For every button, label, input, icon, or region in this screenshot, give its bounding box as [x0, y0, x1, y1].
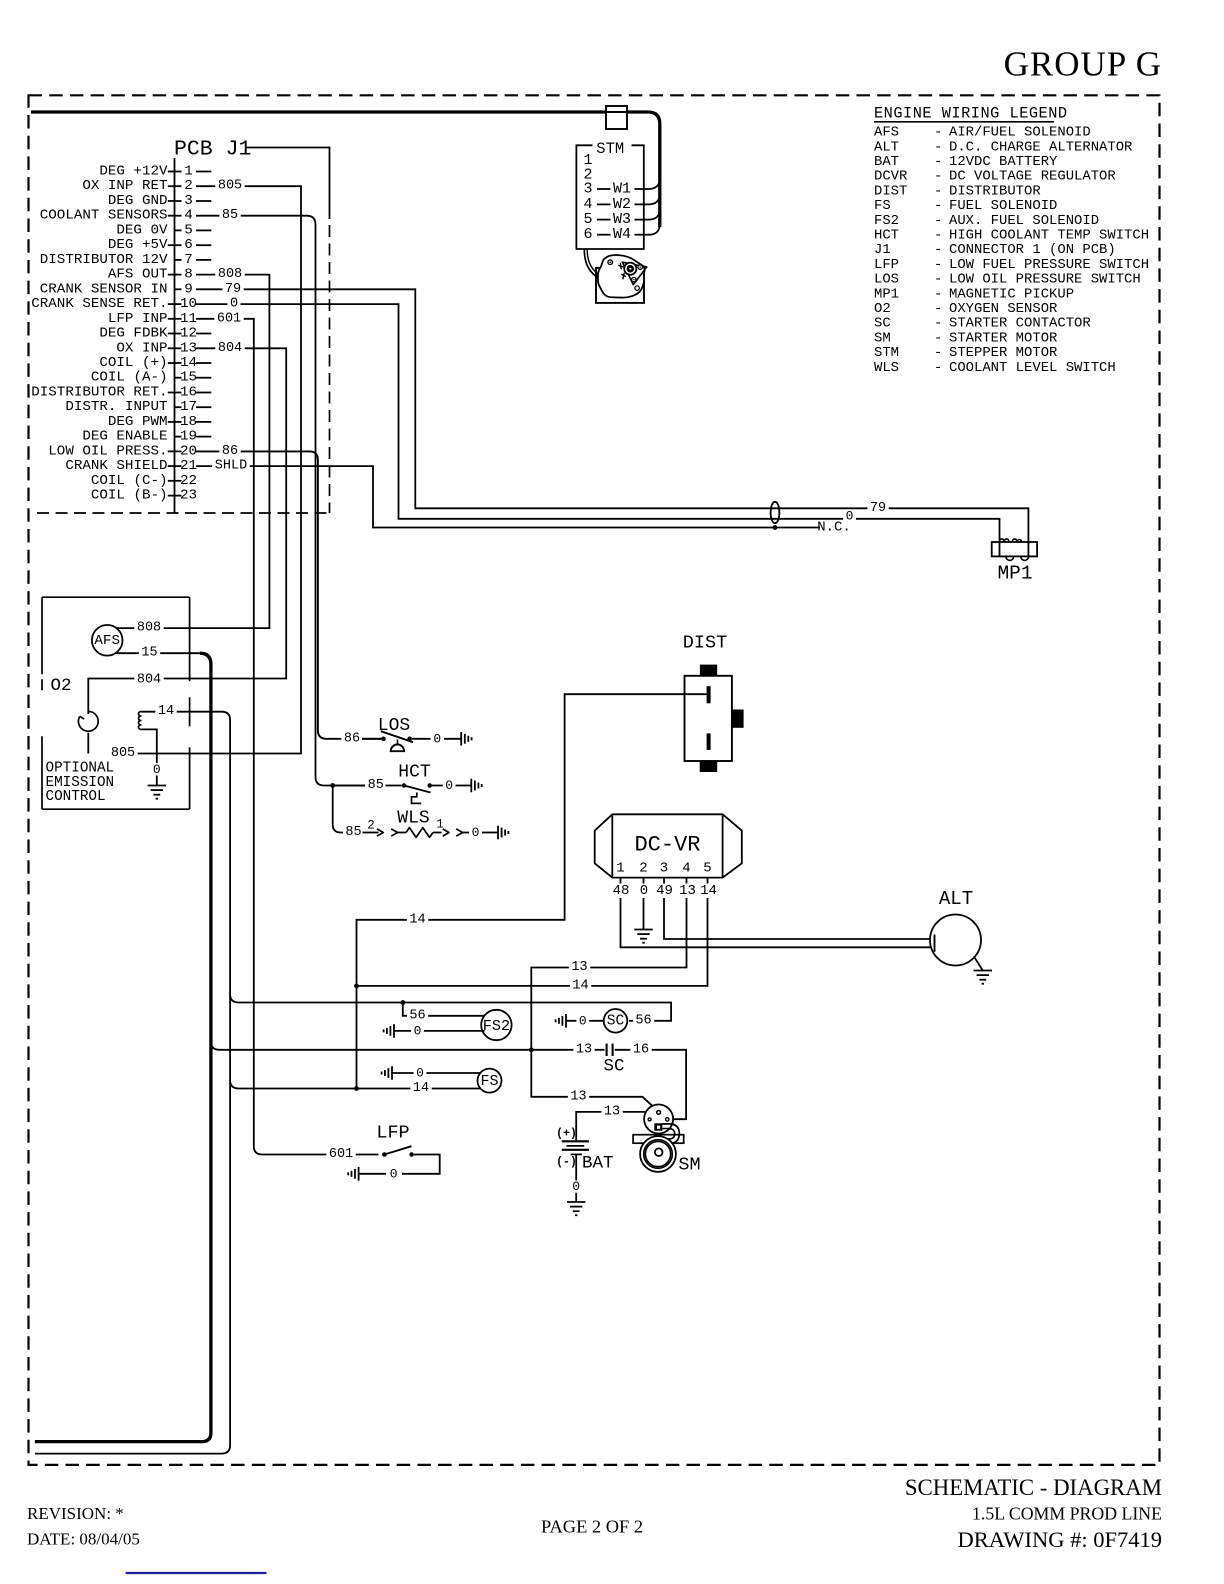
STM pin 4	[583, 196, 648, 213]
svg-text:7: 7	[184, 252, 193, 268]
svg-text:SHLD: SHLD	[215, 459, 247, 474]
pin 20 LOW OIL PRESS.	[48, 443, 197, 459]
pin 11 LFP INP	[108, 311, 197, 327]
svg-text:2: 2	[639, 861, 647, 877]
wire 15 (thick, to page 1 via left border)	[117, 652, 200, 654]
switch LFP low fuel pressure	[326, 1123, 439, 1182]
svg-text:804: 804	[218, 341, 242, 356]
pin 3 DEG GND	[108, 193, 211, 209]
svg-text:MAGNETIC PICKUP: MAGNETIC PICKUP	[949, 286, 1074, 302]
svg-text:LOS: LOS	[874, 272, 899, 288]
svg-text:LFP: LFP	[874, 257, 899, 273]
STM pin 2	[583, 166, 592, 183]
svg-text:13: 13	[576, 1042, 592, 1057]
svg-text:16: 16	[180, 384, 197, 400]
wire 13 row from page 1	[211, 1042, 605, 1050]
svg-text:AUX. FUEL SOLENOID: AUX. FUEL SOLENOID	[949, 213, 1099, 229]
svg-text:5: 5	[184, 222, 193, 238]
pin 10 CRANK SENSE RET.	[31, 296, 197, 312]
svg-text:AFS OUT: AFS OUT	[108, 267, 168, 283]
svg-text:MP1: MP1	[874, 286, 899, 302]
svg-text:SC: SC	[603, 1057, 624, 1077]
pin 18 DEG PWM	[108, 414, 211, 430]
pin 5 DEG 0V	[116, 222, 211, 238]
svg-text:86: 86	[222, 444, 238, 459]
pin 19 DEG ENABLE	[82, 429, 211, 445]
svg-text:DISTR. INPUT: DISTR. INPUT	[65, 399, 167, 415]
svg-text:WLS: WLS	[874, 360, 899, 376]
svg-text:15: 15	[180, 370, 197, 386]
label 0 FS	[414, 1066, 427, 1081]
inline connector on supply wire	[606, 106, 627, 129]
pin 17 DISTR. INPUT	[65, 399, 211, 415]
footer revision/date	[27, 1504, 140, 1549]
wire 0 crank sense return (pin10 to MP1)	[196, 304, 1000, 556]
svg-text:6: 6	[184, 237, 193, 253]
svg-text:0: 0	[416, 1066, 424, 1081]
svg-text:(+): (+)	[556, 1128, 577, 1141]
svg-text:0: 0	[390, 1166, 398, 1181]
svg-text:808: 808	[137, 621, 161, 636]
engine wiring legend	[874, 105, 1149, 376]
sheet dashed border	[29, 95, 1160, 1465]
wire 808 (pin8 to AFS)	[117, 275, 269, 628]
junction 56/FS2	[400, 1000, 405, 1005]
svg-text:DC VOLTAGE REGULATOR: DC VOLTAGE REGULATOR	[949, 169, 1116, 185]
svg-text:14: 14	[180, 355, 197, 371]
svg-text:-: -	[934, 169, 942, 185]
label 0 at N.C.	[843, 509, 856, 524]
svg-text:SM: SM	[874, 330, 891, 346]
stepper motor drawing	[584, 249, 647, 303]
wire 86 (pin20 to LOS)	[196, 451, 382, 738]
svg-text:BAT: BAT	[582, 1153, 614, 1173]
svg-text:COIL (C-): COIL (C-)	[91, 473, 168, 489]
svg-text:ALT: ALT	[939, 888, 973, 910]
svg-text:85: 85	[222, 208, 238, 223]
pin 1 DEG +12V	[99, 164, 211, 180]
svg-text:COIL (A-): COIL (A-)	[91, 370, 168, 386]
svg-text:BAT: BAT	[874, 154, 899, 170]
svg-text:FS2: FS2	[483, 1017, 510, 1035]
label 56 FS2	[407, 1008, 428, 1023]
wire 48 (DC-VR pin1 to ALT)	[621, 898, 935, 947]
svg-text:WLS: WLS	[397, 809, 429, 829]
svg-text:14: 14	[158, 704, 174, 719]
svg-text:12VDC BATTERY: 12VDC BATTERY	[949, 154, 1058, 170]
svg-text:10: 10	[180, 296, 197, 312]
text OPTIONAL EMISSION CONTROL	[46, 761, 115, 806]
svg-text:HIGH COOLANT TEMP SWITCH: HIGH COOLANT TEMP SWITCH	[949, 228, 1149, 244]
label 805 in O2 box	[108, 746, 137, 761]
battery BAT	[556, 1128, 613, 1174]
svg-text:DIST: DIST	[683, 633, 727, 654]
svg-text:-: -	[934, 125, 942, 141]
label 804	[215, 341, 244, 356]
svg-text:O2: O2	[50, 676, 71, 696]
svg-text:601: 601	[217, 311, 241, 326]
svg-text:14: 14	[413, 1081, 429, 1096]
svg-text:5: 5	[703, 861, 711, 877]
wire from J1 label to PCB boundary	[245, 148, 329, 220]
svg-text:HCT: HCT	[874, 228, 899, 244]
svg-text:J1: J1	[874, 242, 891, 258]
shield twist symbol	[771, 502, 780, 523]
STM pin 1	[583, 152, 592, 169]
svg-text:-: -	[934, 272, 942, 288]
blue underline mark	[126, 1572, 267, 1574]
pin 9 CRANK SENSOR IN	[40, 281, 193, 297]
label 13 upper SM	[568, 1089, 589, 1104]
pin 23 COIL (B-)	[91, 488, 197, 504]
distributor DIST	[683, 633, 744, 773]
svg-text:15: 15	[141, 646, 157, 661]
svg-text:14: 14	[700, 883, 717, 899]
svg-text:CRANK SENSOR IN: CRANK SENSOR IN	[40, 281, 168, 297]
pin 4 COOLANT SENSORS	[40, 208, 193, 224]
regulator DC-VR	[595, 814, 742, 899]
wire 13 net (DC-VR pin4, SC, SM)	[531, 898, 686, 1111]
svg-text:COOLANT SENSORS: COOLANT SENSORS	[40, 208, 168, 224]
svg-text:(-): (-)	[556, 1156, 577, 1169]
svg-text:CRANK SENSE RET.: CRANK SENSE RET.	[31, 296, 167, 312]
svg-text:0: 0	[572, 1179, 580, 1194]
svg-text:SM: SM	[678, 1155, 700, 1176]
svg-text:DRAWING #: 0F7419: DRAWING #: 0F7419	[958, 1527, 1162, 1552]
FS2 56 branch	[403, 1003, 485, 1016]
pin 14 COIL (+)	[99, 355, 211, 371]
svg-text:16: 16	[633, 1042, 649, 1057]
svg-text:9: 9	[184, 281, 193, 297]
label 14 FS	[410, 1081, 431, 1096]
svg-text:-: -	[934, 330, 942, 346]
svg-text:808: 808	[218, 267, 242, 282]
STM pin 3	[583, 181, 648, 198]
svg-text:AFS: AFS	[874, 125, 899, 141]
connector STM	[576, 140, 643, 249]
svg-text:CONNECTOR 1 (ON PCB): CONNECTOR 1 (ON PCB)	[949, 242, 1116, 258]
svg-text:0: 0	[433, 731, 441, 746]
svg-text:DEG GND: DEG GND	[108, 193, 168, 209]
svg-text:AIR/FUEL SOLENOID: AIR/FUEL SOLENOID	[949, 125, 1091, 141]
svg-text:6: 6	[583, 226, 592, 243]
svg-text:56: 56	[635, 1013, 651, 1028]
label 808	[215, 267, 244, 282]
label 14	[570, 978, 591, 993]
svg-text:COIL (B-): COIL (B-)	[91, 488, 168, 504]
svg-text:-: -	[934, 183, 942, 199]
svg-text:8: 8	[184, 267, 193, 283]
wire 805 (pin2 to O2 box)	[117, 186, 301, 753]
pin 21 CRANK SHIELD	[65, 458, 197, 474]
svg-text:DIST: DIST	[874, 183, 907, 199]
label 0	[227, 297, 240, 312]
svg-text:-: -	[934, 316, 942, 332]
svg-text:3: 3	[660, 861, 668, 877]
svg-text:MP1: MP1	[997, 563, 1032, 585]
svg-text:DEG FDBK: DEG FDBK	[99, 326, 168, 342]
solenoid FS2	[481, 1010, 511, 1040]
svg-text:STARTER MOTOR: STARTER MOTOR	[949, 330, 1057, 346]
svg-text:LFP INP: LFP INP	[108, 311, 168, 327]
shield junction	[773, 525, 778, 530]
label 0 at O2 ground	[150, 762, 163, 777]
svg-text:DEG +5V: DEG +5V	[108, 237, 168, 253]
svg-text:-: -	[934, 154, 942, 170]
svg-text:SC: SC	[607, 1014, 625, 1030]
svg-text:FS2: FS2	[874, 213, 899, 229]
pin 12 DEG FDBK	[99, 326, 211, 342]
svg-text:14: 14	[409, 912, 425, 927]
svg-text:48: 48	[613, 883, 630, 899]
svg-text:85: 85	[345, 825, 361, 840]
svg-text:ENGINE WIRING LEGEND: ENGINE WIRING LEGEND	[874, 105, 1068, 123]
svg-text:CONTROL: CONTROL	[46, 789, 106, 805]
wire SHLD (pin21 shield)	[196, 466, 820, 527]
pin 7 DISTRIBUTOR 12V	[40, 252, 212, 268]
svg-text:PAGE 2 OF 2: PAGE 2 OF 2	[541, 1517, 643, 1537]
wire 79 (pin9 to MP1)	[196, 289, 1028, 556]
svg-text:LOW OIL PRESSURE SWITCH: LOW OIL PRESSURE SWITCH	[949, 272, 1141, 288]
label 13 lower	[601, 1104, 622, 1119]
svg-text:DATE: 08/04/05: DATE: 08/04/05	[27, 1530, 140, 1549]
label 85	[219, 208, 240, 223]
label 805	[215, 179, 244, 194]
svg-text:0: 0	[445, 778, 453, 793]
svg-text:49: 49	[656, 883, 673, 899]
label 86	[219, 444, 240, 459]
magnetic pickup MP1	[992, 539, 1037, 585]
svg-text:FS: FS	[874, 198, 891, 214]
wire 14 to FS	[230, 1080, 480, 1088]
svg-text:DEG ENABLE: DEG ENABLE	[82, 429, 167, 445]
wire 56 net	[230, 994, 671, 1021]
heater coil	[138, 712, 141, 730]
switch LOS low oil pressure	[341, 716, 471, 751]
svg-text:13: 13	[570, 1089, 586, 1104]
O2 emission control box	[42, 597, 190, 809]
svg-text:0: 0	[579, 1013, 587, 1028]
svg-text:805: 805	[111, 746, 135, 761]
svg-text:-: -	[934, 360, 942, 376]
svg-text:13: 13	[571, 960, 587, 975]
wire 601 (pin11 to LFP)	[196, 319, 379, 1155]
svg-text:56: 56	[409, 1008, 425, 1023]
svg-text:2: 2	[367, 819, 375, 833]
svg-text:18: 18	[180, 414, 197, 430]
svg-text:20: 20	[180, 443, 197, 459]
svg-text:1: 1	[616, 861, 624, 877]
svg-text:0: 0	[230, 297, 238, 312]
pin 2 OX INP RET	[82, 178, 192, 194]
svg-text:COIL (+): COIL (+)	[99, 355, 167, 371]
solenoid AFS	[92, 625, 123, 656]
PCB dashed boundary	[329, 225, 331, 513]
svg-text:19: 19	[180, 429, 197, 445]
pin 6 DEG +5V	[108, 237, 211, 253]
svg-text:SC: SC	[874, 316, 891, 332]
svg-text:FS: FS	[480, 1073, 498, 1090]
svg-text:13: 13	[679, 883, 696, 899]
svg-text:DISTRIBUTOR RET.: DISTRIBUTOR RET.	[31, 384, 167, 400]
svg-text:OX INP RET: OX INP RET	[82, 178, 167, 194]
svg-text:DEG PWM: DEG PWM	[108, 414, 168, 430]
svg-text:PCB J1: PCB J1	[174, 138, 251, 162]
wire 49 (DC-VR pin3 to ALT)	[664, 898, 935, 939]
starter contactor contact SC	[573, 1042, 651, 1076]
svg-text:14: 14	[572, 978, 588, 993]
svg-text:AFS: AFS	[94, 633, 120, 649]
svg-text:-: -	[934, 139, 942, 155]
ground ALT	[974, 956, 983, 970]
wire 804 (pin13 to O2 box)	[88, 348, 286, 714]
svg-text:3: 3	[184, 193, 193, 209]
svg-text:LOW FUEL PRESSURE SWITCH: LOW FUEL PRESSURE SWITCH	[949, 257, 1149, 273]
label 0 FS2	[411, 1023, 424, 1038]
svg-text:-: -	[934, 228, 942, 244]
STM pin 5	[583, 211, 648, 228]
junction dots 14 net	[354, 984, 359, 989]
svg-text:13: 13	[180, 340, 197, 356]
starter motor SM	[633, 1105, 701, 1176]
pin 13 OX INP	[116, 340, 197, 356]
svg-text:79: 79	[225, 282, 241, 297]
svg-text:0: 0	[153, 762, 161, 777]
ground BAT	[575, 1154, 577, 1202]
svg-text:REVISION: *: REVISION: *	[27, 1504, 124, 1523]
svg-text:22: 22	[180, 473, 197, 489]
svg-text:-: -	[934, 301, 942, 317]
switch WLS coolant level	[333, 786, 509, 841]
svg-text:DEG 0V: DEG 0V	[116, 222, 168, 238]
svg-text:W4: W4	[613, 226, 631, 243]
svg-text:ALT: ALT	[874, 139, 899, 155]
starter contactor coil SC	[556, 1009, 655, 1033]
svg-text:1: 1	[184, 164, 193, 180]
svg-text:STM: STM	[596, 140, 624, 158]
wires W1-W4 to supply bundle	[649, 179, 660, 190]
svg-text:1.5L COMM PROD LINE: 1.5L COMM PROD LINE	[972, 1504, 1162, 1524]
alternator ALT	[930, 888, 981, 966]
label 808 in O2 box	[134, 621, 163, 636]
svg-text:STARTER CONTACTOR: STARTER CONTACTOR	[949, 316, 1091, 332]
svg-text:DC-VR: DC-VR	[634, 833, 700, 858]
label 79	[222, 282, 243, 297]
svg-text:4: 4	[184, 208, 193, 224]
label 0 BAT	[570, 1179, 583, 1194]
svg-text:11: 11	[180, 311, 197, 327]
svg-text:-: -	[934, 198, 942, 214]
ground FS	[382, 1066, 392, 1080]
svg-text:OXYGEN SENSOR: OXYGEN SENSOR	[949, 301, 1057, 317]
pin 22 COIL (C-)	[91, 473, 197, 489]
svg-text:-: -	[934, 213, 942, 229]
ground FS2	[384, 1024, 394, 1038]
svg-text:DISTRIBUTOR 12V: DISTRIBUTOR 12V	[40, 252, 168, 268]
label 14 near DIST riser	[407, 912, 428, 927]
svg-text:804: 804	[137, 673, 161, 688]
svg-text:13: 13	[604, 1104, 620, 1119]
svg-text:FUEL SOLENOID: FUEL SOLENOID	[949, 198, 1057, 214]
svg-text:85: 85	[368, 778, 384, 793]
svg-text:4: 4	[682, 861, 690, 877]
svg-text:STEPPER MOTOR: STEPPER MOTOR	[949, 345, 1057, 361]
solenoid FS	[478, 1069, 502, 1093]
svg-text:LFP: LFP	[376, 1123, 409, 1144]
svg-text:CRANK SHIELD: CRANK SHIELD	[65, 458, 167, 474]
junction 13 net	[529, 1047, 534, 1052]
svg-text:0: 0	[640, 883, 648, 899]
svg-text:2: 2	[184, 178, 193, 194]
svg-text:-: -	[934, 345, 942, 361]
label 13	[569, 960, 590, 975]
pin 15 COIL (A-)	[91, 370, 211, 386]
svg-text:601: 601	[329, 1147, 353, 1162]
footer title block	[905, 1475, 1162, 1552]
svg-text:805: 805	[218, 179, 242, 194]
svg-text:OX INP: OX INP	[116, 340, 167, 356]
wire 13 to SM lower	[576, 1112, 656, 1141]
switch HCT high coolant temp	[330, 763, 481, 804]
svg-text:-: -	[934, 257, 942, 273]
svg-text:LOS: LOS	[378, 716, 410, 736]
svg-text:D.C. CHARGE ALTERNATOR: D.C. CHARGE ALTERNATOR	[949, 139, 1132, 155]
label 79 at MP1	[867, 501, 888, 516]
wire 14 from O2 coil (to page 1 / FS)	[35, 712, 230, 1454]
svg-text:DEG +12V: DEG +12V	[99, 164, 168, 180]
svg-text:O2: O2	[874, 301, 891, 317]
svg-text:GROUP G: GROUP G	[1004, 45, 1162, 84]
svg-text:COOLANT LEVEL SWITCH: COOLANT LEVEL SWITCH	[949, 360, 1116, 376]
svg-text:DISTRIBUTOR: DISTRIBUTOR	[949, 183, 1041, 199]
wire 85 (pin4 to HCT)	[196, 216, 382, 786]
STM pin 6	[583, 226, 648, 243]
svg-text:12: 12	[180, 326, 197, 342]
svg-text:-: -	[934, 286, 942, 302]
svg-text:STM: STM	[874, 345, 899, 361]
svg-text:-: -	[934, 242, 942, 258]
wire 14 branch (DC-VR pin5)	[357, 898, 708, 986]
svg-text:SCHEMATIC - DIAGRAM: SCHEMATIC - DIAGRAM	[905, 1475, 1162, 1500]
label 601	[214, 311, 243, 326]
svg-text:0: 0	[414, 1023, 422, 1038]
oxygen sensor element	[78, 711, 98, 731]
ground DC-VR pin2	[643, 898, 645, 930]
pin 8 AFS OUT	[108, 267, 193, 283]
thick supply wire from page 1	[31, 112, 660, 227]
label SHLD	[212, 459, 250, 474]
svg-text:17: 17	[180, 399, 197, 415]
pin 16 DISTRIBUTOR RET.	[31, 384, 211, 400]
svg-text:0: 0	[472, 825, 480, 840]
svg-text:21: 21	[180, 458, 197, 474]
svg-text:HCT: HCT	[398, 763, 431, 783]
O2 coil ground	[141, 729, 157, 785]
label 14 in O2 box	[155, 704, 176, 719]
svg-text:23: 23	[180, 488, 197, 504]
label 804 in O2 box	[134, 673, 163, 688]
wire 14 net (DIST feed)	[357, 694, 707, 1088]
svg-text:LOW OIL PRESS.: LOW OIL PRESS.	[48, 443, 167, 459]
svg-text:79: 79	[870, 501, 886, 516]
svg-text:86: 86	[344, 731, 360, 746]
svg-text:0: 0	[846, 509, 854, 524]
svg-text:DCVR: DCVR	[874, 169, 907, 185]
label 15	[139, 646, 160, 661]
